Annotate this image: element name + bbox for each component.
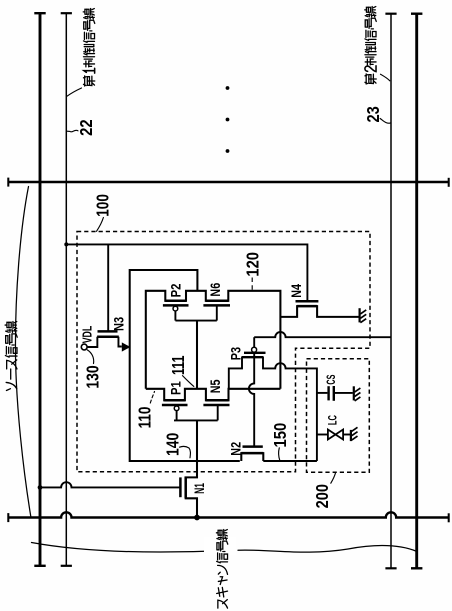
svg-text:111: 111 [168, 355, 188, 375]
junction on line 22 [64, 242, 68, 246]
transistor N5 [206, 399, 229, 402]
wire: N3 gate lead [107, 244, 109, 330]
leader 150 [279, 448, 280, 461]
wire: P3/N2 gate line to control line 23 with hop [254, 332, 391, 337]
label source signal line [5, 322, 17, 391]
transistor N3 (VDL switch 130) [87, 337, 97, 347]
svg-text:LC: LC [326, 415, 340, 425]
dashed box 200 (display element) [307, 359, 370, 473]
junction on scan line [38, 485, 43, 490]
svg-text:CS: CS [324, 375, 338, 385]
svg-text:150: 150 [270, 423, 290, 448]
transistor P3 [253, 337, 255, 347]
wire: inverter row 2 S/D with P1,N5 dips [146, 389, 281, 401]
svg-text:N3: N3 [111, 317, 127, 331]
svg-text:N5: N5 [207, 379, 223, 393]
wire: N1 gate from scan line with hop over 22 [40, 482, 180, 487]
leader 22 [67, 130, 78, 132]
second control signal line 23 [390, 14, 392, 569]
first control signal line 22 [65, 13, 67, 566]
leader 23 [380, 119, 390, 124]
transistor N1 (scan switch) [186, 461, 197, 518]
transistor N4 [280, 306, 358, 317]
wire: P3 right lead to riser with hop [263, 357, 317, 461]
svg-text:N4: N4 [288, 284, 304, 298]
leader 200 [331, 473, 336, 484]
ground (LC) [350, 430, 352, 441]
svg-text:140: 140 [162, 432, 182, 456]
ellipsis dots [226, 86, 230, 90]
leader 140 [180, 446, 191, 457]
transistor P2 [165, 300, 186, 303]
wire: gate join down to holding line [196, 420, 198, 461]
terminal VDL [81, 344, 87, 350]
source signal line (upper horizontal) [8, 181, 449, 183]
leader second control line [381, 74, 390, 81]
svg-text:N2: N2 [228, 442, 244, 456]
svg-text:VDL: VDL [79, 326, 94, 344]
svg-text:200: 200 [312, 484, 332, 509]
wire: latch supply rail + inverter row 1 S/D with P2,N6 dips [146, 291, 281, 389]
label second control signal line [365, 7, 377, 85]
wire: P2/N6 gate join [175, 320, 216, 322]
ground (N4) [359, 308, 361, 322]
svg-text:N1: N1 [191, 483, 207, 494]
node 150: holding line right segment [263, 460, 317, 462]
leader 100 [97, 218, 104, 232]
svg-text:23: 23 [363, 106, 383, 123]
wire: P3 mid vertical down to N2 gate with hop [249, 352, 254, 445]
leader 110 (dashed) [150, 392, 154, 404]
leader 120 (dashed) [251, 278, 253, 290]
wire: P3 left lead down to latch row2 [229, 357, 242, 389]
leader 130 [87, 350, 93, 364]
node 111: center vertical (latch cross-coupling) [196, 321, 198, 389]
liquid crystal LC [317, 434, 328, 436]
leader 111 [183, 376, 194, 387]
leader first control line [67, 88, 82, 96]
svg-text:P1: P1 [167, 381, 183, 395]
svg-text:22: 22 [76, 119, 96, 136]
label scan signal line [216, 530, 227, 609]
transistor N6 [206, 300, 229, 303]
svg-text:100: 100 [92, 194, 112, 217]
wire: line22 branch to N3/N4 gates [66, 244, 307, 300]
scan signal line (right thick vertical) [415, 14, 418, 569]
svg-text:P3: P3 [228, 347, 244, 360]
transistor P1 [164, 399, 185, 402]
ground (CS) [353, 386, 355, 400]
scan signal line (left thick vertical) [39, 13, 42, 566]
capacitor CS [317, 392, 328, 394]
arrow into latch rail [122, 342, 131, 351]
svg-text:N6: N6 [207, 283, 223, 297]
junction N1 source to source line [194, 515, 200, 521]
white gap for scan label [204, 537, 236, 555]
source signal line (lower horizontal) with hops over 22 and 23 [8, 512, 449, 517]
node 140: latch outer loop (top line + left rail + holding line) [130, 270, 240, 461]
svg-text:P2: P2 [167, 283, 183, 297]
transistor N2 [241, 453, 263, 461]
svg-text:120: 120 [243, 252, 263, 277]
svg-text:130: 130 [83, 365, 103, 389]
scan line continuation squiggle [32, 543, 206, 553]
source line continuation squiggle [15, 187, 30, 517]
dashed box 100 (pixel) with notch [77, 232, 370, 472]
label first control signal line [83, 9, 95, 87]
wire: P1/N5 gate join [174, 419, 218, 421]
svg-text:110: 110 [135, 406, 155, 428]
